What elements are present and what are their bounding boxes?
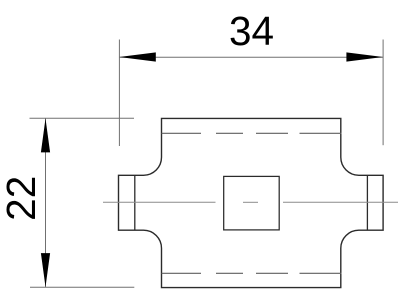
tangent edge line left tab (134, 175, 136, 230)
dimension line 22 (45, 118, 47, 287)
arrowhead 22 bottom (41, 253, 50, 287)
extension line bottom (22 dim) (30, 286, 134, 288)
extension line right (34 dim) (382, 40, 384, 146)
square hole (224, 176, 280, 230)
arrowhead 22 top (41, 119, 50, 153)
hidden line top (162, 132, 342, 134)
svg-text:34: 34 (229, 8, 274, 54)
hidden line bottom (162, 272, 342, 274)
svg-text:22: 22 (0, 176, 44, 221)
tangent edge line right tab (366, 175, 368, 230)
arrowhead 34 right (346, 52, 383, 61)
extension line top (22 dim) (30, 117, 135, 119)
extension line left (34 dim) (118, 40, 120, 147)
dimension line 34 (119, 56, 383, 58)
arrowhead 34 left (119, 52, 156, 61)
horizontal centerline (103, 201, 398, 203)
part body outline (cross-shaped plate with filleted tabs) (119, 118, 384, 287)
